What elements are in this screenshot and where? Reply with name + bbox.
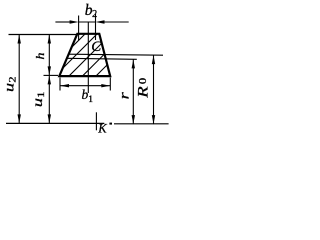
dimension h xyxy=(48,35,50,76)
hatching xyxy=(39,25,160,80)
node K tick xyxy=(95,112,97,130)
svg-text:1: 1 xyxy=(88,95,93,105)
svg-text:R: R xyxy=(134,86,151,99)
trapezoid section outline xyxy=(59,34,110,76)
label u1 xyxy=(30,92,47,108)
dimension r xyxy=(132,59,134,124)
svg-text:0: 0 xyxy=(138,78,149,85)
svg-text:u: u xyxy=(30,98,46,107)
svg-text:K: K xyxy=(97,122,107,136)
label r xyxy=(116,91,132,99)
label u2 xyxy=(1,76,18,92)
dimension b2 xyxy=(55,14,128,40)
svg-text:r: r xyxy=(116,91,132,99)
svg-text:2: 2 xyxy=(8,76,18,82)
wire neutral axis line xyxy=(67,58,137,59)
label h xyxy=(33,53,47,60)
wire top extension line xyxy=(9,34,78,36)
dimension u1 xyxy=(48,75,50,123)
dimension R0 xyxy=(153,55,155,124)
label R0 xyxy=(134,78,151,99)
dimension u2 xyxy=(18,35,20,124)
svg-text:2: 2 xyxy=(92,9,97,20)
node C vertical centre line xyxy=(87,22,89,93)
wire bottom-left extension line xyxy=(44,74,59,76)
svg-text:u: u xyxy=(1,83,17,92)
dimension b1 xyxy=(60,78,110,91)
svg-text:1: 1 xyxy=(36,92,46,98)
svg-text:h: h xyxy=(33,53,47,60)
svg-text:C: C xyxy=(91,39,102,55)
axis K line (dash-dot) xyxy=(6,122,104,124)
wire centroid horizontal line xyxy=(68,54,163,55)
